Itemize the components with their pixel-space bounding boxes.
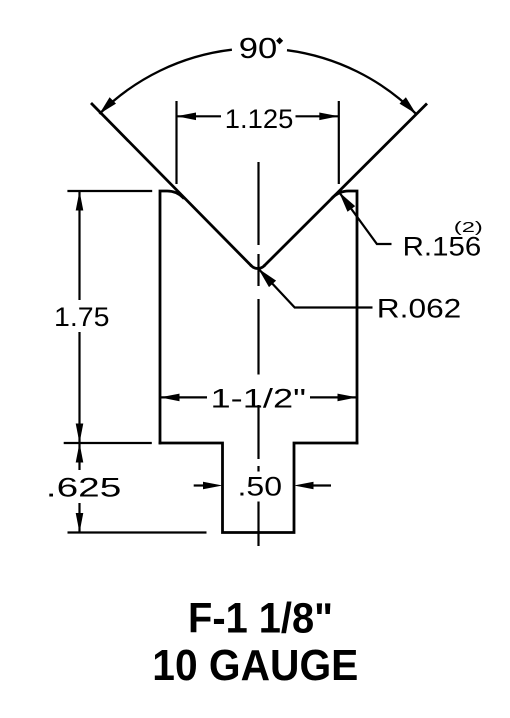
90 degree angle dimension arc xyxy=(99,50,416,114)
svg-text:1.125: 1.125 xyxy=(225,104,293,134)
svg-text:10 GAUGE: 10 GAUGE xyxy=(152,641,358,690)
svg-text:(2): (2) xyxy=(454,219,483,236)
svg-text:R.156: R.156 xyxy=(403,232,482,262)
.625 dimension xyxy=(68,443,207,533)
1-1/2 inch dimension xyxy=(160,396,357,398)
R.156 leader xyxy=(339,192,392,244)
1.125 dimension xyxy=(177,101,339,184)
V-groove right flank extended line xyxy=(264,104,427,266)
degree symbol xyxy=(276,37,283,44)
svg-text:.625: .625 xyxy=(46,473,122,503)
svg-text:1.75: 1.75 xyxy=(54,302,110,332)
vertical centerline xyxy=(257,162,259,546)
.50 dimension xyxy=(194,484,331,486)
svg-text:90: 90 xyxy=(239,33,277,65)
die body outline xyxy=(160,191,357,533)
V-groove left flank extended line xyxy=(91,103,251,266)
svg-text:R.062: R.062 xyxy=(377,294,462,324)
R.062 leader xyxy=(258,269,372,308)
svg-text:.50: .50 xyxy=(238,472,283,502)
svg-text:1-1/2": 1-1/2" xyxy=(211,384,307,414)
svg-text:F-1 1/8": F-1 1/8" xyxy=(188,594,333,642)
1.75 dimension xyxy=(64,191,153,443)
